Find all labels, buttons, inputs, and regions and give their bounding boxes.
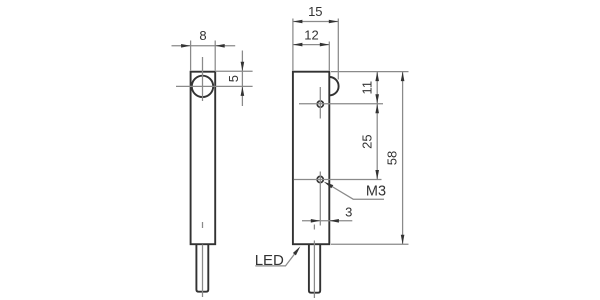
dim 15 extension line right — [337, 19, 339, 80]
dim 58 arrow top — [401, 72, 405, 82]
dim 5 dimension line — [241, 51, 243, 107]
dim 3 dimension line — [302, 220, 352, 222]
dim 11 and dim 25 shared dimension line — [376, 72, 378, 180]
right view cable centerline — [313, 225, 315, 299]
dim 12 arrow right — [320, 43, 330, 47]
dim 58 dimension line — [402, 72, 404, 245]
dim 5 top reference line — [215, 70, 252, 72]
dim 8 extension line left — [190, 41, 192, 71]
hole 1 horizontal centerline / dim 11 reference — [299, 103, 383, 105]
right view hole centerline vertical — [319, 87, 321, 226]
dim 11 and 58 top reference line — [331, 71, 409, 73]
right view body outline — [293, 72, 329, 245]
LED leader underline — [255, 254, 294, 266]
dim 25 arrow bottom — [375, 170, 379, 180]
dim 15 arrow right — [329, 20, 339, 24]
M3 leader line — [332, 186, 384, 199]
dim 8 arrow left — [181, 44, 191, 48]
dim 15 arrow left — [293, 20, 303, 24]
svg-text:3: 3 — [345, 204, 352, 219]
dim 58 bottom reference line — [331, 243, 409, 245]
M3 leader arrowhead — [324, 182, 334, 189]
dim 3 arrow right — [329, 219, 339, 223]
left view sensing circle — [192, 76, 213, 97]
hole 2 lower M3 — [317, 176, 323, 182]
dim 58 arrow bottom — [401, 235, 405, 245]
dim 11 arrow bottom — [375, 94, 379, 104]
dim 12 extension line right — [328, 42, 330, 71]
dim 12 arrow left — [293, 43, 303, 47]
dim 11 arrow top — [375, 72, 379, 82]
left view cable — [196, 244, 208, 292]
dim 5 arrow bottom — [241, 86, 245, 96]
dim 12 dimension line — [293, 44, 329, 46]
hole 1 upper — [317, 101, 323, 107]
left view vertical centerline — [202, 57, 204, 297]
svg-text:M3: M3 — [366, 184, 386, 200]
svg-text:25: 25 — [359, 134, 374, 148]
dim 3 arrow left — [311, 219, 321, 223]
dim 25 arrow top — [375, 104, 379, 114]
right view cable — [309, 244, 320, 293]
dim 5 arrow top — [241, 62, 245, 71]
left view body outline — [191, 72, 216, 245]
LED leader arrowhead — [293, 246, 300, 255]
dim 8 arrow right — [215, 44, 225, 48]
dim 15 dimension line — [293, 21, 338, 23]
svg-text:8: 8 — [199, 28, 206, 43]
svg-text:12: 12 — [304, 27, 318, 42]
svg-text:11: 11 — [359, 81, 374, 95]
svg-text:LED: LED — [255, 252, 284, 269]
svg-text:58: 58 — [385, 151, 400, 165]
right view top semicircle bump — [329, 77, 338, 95]
left view circle horizontal centerline / dim 5 bottom reference — [176, 85, 253, 87]
svg-text:5: 5 — [226, 75, 241, 82]
hole 2 horizontal centerline / dim 25 reference — [294, 179, 382, 181]
dim 15 extension line left shared with dim 12 — [292, 19, 294, 71]
dim 8 dimension line — [172, 45, 236, 47]
svg-text:15: 15 — [308, 4, 322, 19]
dim 8 extension line right — [214, 41, 216, 71]
